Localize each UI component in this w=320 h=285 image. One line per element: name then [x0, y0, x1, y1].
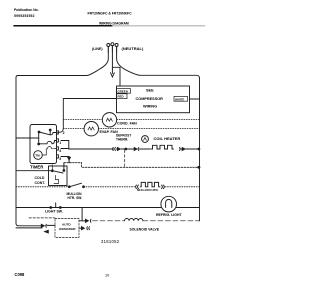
wire evaporator fan to neutral dotted: [98, 128, 199, 130]
connector icemaker right: [85, 219, 89, 222]
wire light circuit line: [16, 207, 50, 209]
connector arrow on wire: [68, 157, 71, 160]
defrost coil heater resistor: [151, 145, 174, 149]
svg-text:WIRING: WIRING: [143, 105, 157, 109]
wire line conductor from left prong to top-left border: [16, 52, 108, 226]
wire solenoid to neutral dashed: [143, 220, 200, 222]
icemaker box dashed: [55, 219, 79, 238]
terminal GREEN: [117, 89, 131, 94]
wire to evaporator fan dotted: [63, 128, 84, 130]
timer box: [30, 125, 57, 164]
condenser fan motor: [102, 113, 116, 127]
svg-text:5995353552: 5995353552: [14, 14, 35, 18]
plug prong left: [107, 44, 110, 47]
mullion heater switch: [68, 186, 70, 188]
wire mullion line dotted: [84, 186, 135, 188]
terminal 2: [57, 131, 59, 134]
svg-text:LIGHT SW.: LIGHT SW.: [45, 210, 63, 214]
connector on defrost line: [133, 148, 137, 151]
evaporator fan motor: [84, 122, 98, 136]
svg-text:REFRIG. LIGHT: REFRIG. LIGHT: [156, 213, 183, 217]
svg-text:FRT20NGFC & FRT20NKFC: FRT20NGFC & FRT20NKFC: [88, 11, 133, 15]
cold control bellows: [54, 175, 59, 183]
wire to solenoid dashed: [93, 220, 125, 222]
svg-text:GREEN: GREEN: [118, 89, 128, 93]
svg-text:1: 1: [59, 141, 61, 145]
wire neutral conductor from right prong to right border: [117, 52, 200, 221]
svg-text:TM: TM: [35, 154, 40, 158]
junction node on defrost line: [125, 148, 127, 150]
svg-text:TIMER: TIMER: [30, 165, 44, 170]
wire line to cold control: [16, 170, 51, 172]
connector stub arrow: [45, 230, 49, 233]
wire mullion heater line dotted: [16, 186, 69, 188]
label DEFROST THERM.: [116, 134, 131, 142]
timer motor TM: [34, 151, 43, 160]
icemaker lower stub connector: [79, 227, 84, 230]
connector on mullion line: [136, 185, 139, 189]
terminal RED: [117, 94, 128, 99]
wire terminal 3 down: [61, 157, 69, 163]
wire line to icemaker connector: [16, 227, 42, 229]
svg-text:SEE: SEE: [146, 88, 154, 92]
wire mullion to neutral dotted: [165, 186, 200, 188]
wire light switch to lamp: [60, 207, 161, 209]
defrost thermostat symbol: [142, 136, 149, 143]
junction node at neutral border: [198, 166, 200, 168]
svg-text:COND. FAN: COND. FAN: [117, 122, 137, 126]
connector after coil heater: [179, 148, 182, 151]
publication number text: [14, 8, 39, 18]
connector after mullion heater: [162, 185, 165, 189]
wire defrost heater line: [69, 148, 114, 150]
svg-text:Publication No.: Publication No.: [14, 8, 39, 12]
wire timer motor to terminal 4: [42, 147, 56, 155]
timer contact blade to terminal 2: [38, 131, 40, 133]
timer contact blade to terminal 1: [38, 143, 40, 145]
header rule: [14, 25, 112, 27]
dashed vertical from defrost junction: [124, 150, 126, 167]
svg-text:ICEMAKER: ICEMAKER: [59, 227, 76, 231]
wire icemaker to solenoid: [79, 220, 85, 222]
plug prong middle: [111, 43, 114, 46]
cold control box: [49, 166, 68, 186]
ground arrow symbol: [111, 73, 115, 77]
wire terminal 4 to defrost line: [61, 148, 69, 150]
svg-text:(LINE): (LINE): [92, 47, 103, 51]
compressor box SEE COMPRESSOR WIRING: [117, 86, 190, 113]
svg-text:C098: C098: [15, 272, 26, 277]
svg-text:COLD: COLD: [35, 176, 45, 180]
wire lamp to neutral: [177, 207, 200, 209]
svg-text:3181052: 3181052: [101, 239, 120, 244]
svg-text:SOLENOID VALVE: SOLENOID VALVE: [130, 228, 160, 232]
wire icemaker harness dashed: [29, 217, 55, 219]
svg-text:4: 4: [59, 149, 61, 153]
timer common bus wire: [38, 132, 40, 144]
wire condenser fan to neutral dotted: [117, 118, 200, 120]
refrigerator lamp: [161, 196, 177, 212]
wire run from timer T2 up and to compressor red: [58, 99, 117, 133]
wire terminal 1 to defrost line: [61, 141, 69, 150]
terminal 4: [57, 147, 59, 150]
label MULLION HTR. SW.: [67, 192, 83, 200]
svg-text:HTR. SW.: HTR. SW.: [68, 196, 83, 200]
wire to condenser fan dotted: [63, 118, 102, 120]
mullion heater resistor: [140, 182, 160, 186]
timer input wire from line: [16, 137, 39, 139]
plug prong right: [115, 44, 118, 47]
terminal 3: [57, 155, 59, 158]
wire tap from light line to icemaker: [81, 208, 83, 221]
svg-text:WHITE: WHITE: [175, 97, 184, 101]
label COLD CONT.: [35, 176, 46, 185]
connector icemaker left: [40, 224, 44, 227]
svg-text:3: 3: [59, 157, 61, 161]
terminal WHITE: [174, 96, 188, 101]
svg-text:(NEUTRAL): (NEUTRAL): [122, 46, 144, 51]
solenoid valve coil: [125, 218, 143, 220]
svg-text:10: 10: [105, 273, 109, 277]
connector pair on defrost line: [113, 148, 116, 151]
wire ground conductor: [111, 52, 113, 74]
svg-text:COIL HEATER: COIL HEATER: [154, 136, 181, 141]
svg-text:RED: RED: [118, 95, 124, 99]
wire ground branch to compressor green: [112, 67, 120, 86]
svg-text:AUTO: AUTO: [62, 223, 71, 227]
wire to neutral with jog: [64, 163, 200, 168]
wire cold control up to neutral jog: [63, 163, 65, 171]
light switch: [50, 207, 52, 209]
svg-text:2: 2: [63, 131, 65, 135]
label AUTO ICEMAKER: [59, 223, 76, 232]
svg-text:THERM.: THERM.: [116, 138, 128, 142]
wire white to neutral border: [190, 98, 200, 100]
cold control contacts: [51, 170, 53, 172]
svg-text:WIRING DIAGRAM: WIRING DIAGRAM: [99, 22, 129, 26]
svg-text:CONT.: CONT.: [35, 181, 46, 185]
svg-text:COMPRESSOR: COMPRESSOR: [136, 97, 164, 101]
terminal 1: [57, 139, 59, 142]
svg-text:MULLION HTR.: MULLION HTR.: [137, 188, 159, 192]
